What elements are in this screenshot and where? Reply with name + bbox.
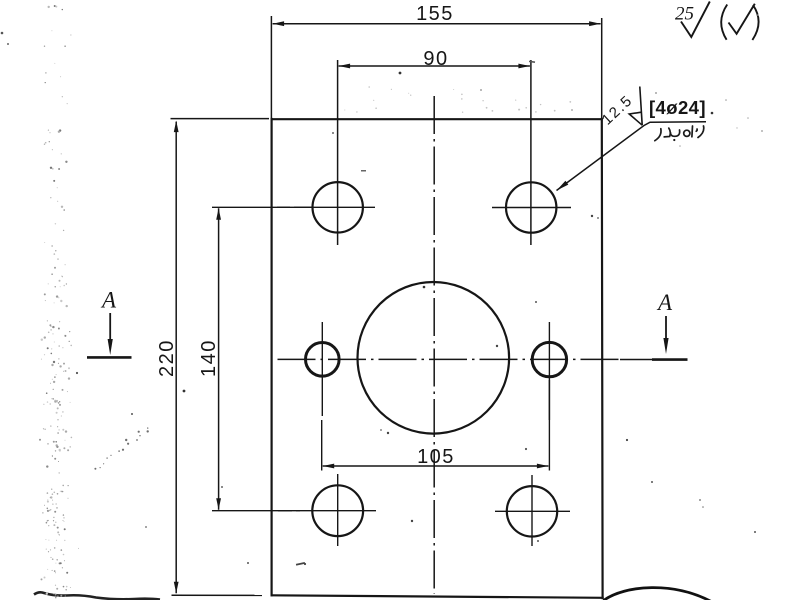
extension line 220 bottom xyxy=(172,594,263,596)
section arrow A right xyxy=(652,290,688,360)
note persian text xyxy=(655,126,704,141)
extension line 140 top xyxy=(212,206,312,208)
dimension 155 xyxy=(273,3,601,26)
extension line 155 right xyxy=(601,18,603,119)
top-left hole centerlines xyxy=(277,206,290,208)
hole top-right xyxy=(506,182,556,232)
extension line 155 left xyxy=(270,16,272,119)
dimension 105 xyxy=(323,445,549,468)
extension line 90 right xyxy=(530,60,532,245)
vertical centerline xyxy=(433,96,435,594)
central bore xyxy=(358,282,510,434)
hole bottom-right xyxy=(507,486,557,536)
section arrow A left xyxy=(87,288,132,358)
dimension 140 xyxy=(198,208,221,509)
extension line 105 right xyxy=(548,380,550,471)
extension line 140 bottom xyxy=(212,510,300,512)
svg-text:A: A xyxy=(656,290,673,315)
svg-text:[4ø24]: [4ø24] xyxy=(649,97,706,118)
page curl bottom right xyxy=(604,588,714,600)
hole bottom-left xyxy=(312,485,363,536)
extension line 90 left xyxy=(337,60,339,245)
svg-text:25: 25 xyxy=(675,4,694,25)
extension line 105 left xyxy=(321,420,323,471)
hole middle-left xyxy=(306,343,340,377)
roughness 25 symbol xyxy=(675,2,710,38)
top-right hole centerlines xyxy=(492,207,571,209)
roughness (check) symbol xyxy=(721,4,758,40)
bottom-left hole centerlines xyxy=(278,510,292,512)
middle-left hole centerline xyxy=(321,322,323,416)
torn edge bottom left xyxy=(34,592,160,599)
roughness symbol 12.5 xyxy=(629,87,642,126)
plate outline xyxy=(272,119,603,598)
svg-text:A: A xyxy=(100,288,117,313)
hole middle-right xyxy=(532,342,566,376)
leader line to hole xyxy=(557,122,707,191)
dimension 220 xyxy=(156,121,179,594)
extension line 220 top xyxy=(171,118,270,120)
svg-text:220: 220 xyxy=(156,339,178,377)
middle-right hole centerline xyxy=(548,322,550,420)
svg-text:90: 90 xyxy=(423,48,448,70)
svg-text:105: 105 xyxy=(417,446,455,468)
bottom-right hole centerlines xyxy=(495,510,570,512)
svg-text:155: 155 xyxy=(416,3,454,25)
svg-text:140: 140 xyxy=(198,339,220,377)
hole top-left xyxy=(313,182,363,232)
dimension 90 xyxy=(339,48,530,70)
horizontal centerline xyxy=(278,358,621,360)
